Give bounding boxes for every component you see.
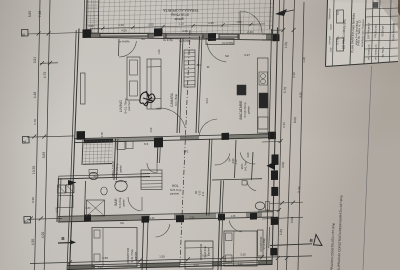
bottom dimension chain bbox=[30, 256, 312, 264]
svg-text:S=18.75 mp: S=18.75 mp bbox=[171, 13, 189, 17]
svg-text:0.80: 0.80 bbox=[86, 207, 91, 210]
svg-text:EXPERT: EXPERT bbox=[329, 35, 331, 44]
svg-text:±0.00: ±0.00 bbox=[56, 206, 58, 212]
title block row lines bbox=[366, 8, 398, 9]
kitchen fridge bbox=[258, 117, 268, 129]
tick bbox=[285, 256, 289, 260]
lower interior wall bbox=[58, 217, 273, 222]
svg-text:BAIE: BAIE bbox=[114, 198, 118, 205]
camara shelves bbox=[184, 50, 195, 87]
svg-text:3.81: 3.81 bbox=[33, 57, 37, 64]
svg-text:6.00: 6.00 bbox=[290, 217, 294, 224]
svg-text:M2: M2 bbox=[225, 54, 229, 58]
window top wall 3 bbox=[219, 35, 238, 38]
title block paper bbox=[326, 0, 399, 67]
tick bbox=[32, 135, 36, 139]
svg-text:4.70: 4.70 bbox=[43, 72, 47, 79]
top exterior wall bbox=[84, 32, 278, 35]
svg-text:1.20: 1.20 bbox=[118, 23, 124, 27]
svg-text:W.C.: W.C. bbox=[240, 163, 244, 170]
svg-text:10.35: 10.35 bbox=[32, 166, 36, 174]
dim connector y63 bbox=[40, 62, 58, 65]
svg-text:4.78: 4.78 bbox=[100, 132, 104, 138]
svg-text:3.60: 3.60 bbox=[182, 29, 188, 33]
svg-text:fw 6=5%: fw 6=5% bbox=[222, 41, 234, 45]
tick bbox=[249, 23, 252, 26]
svg-text:parchet: parchet bbox=[170, 192, 179, 196]
tick bbox=[68, 260, 72, 264]
desk edge top-right bbox=[388, 0, 400, 16]
door arc hall2 bbox=[240, 152, 255, 164]
svg-text:1.52: 1.52 bbox=[150, 127, 153, 132]
right connectors bbox=[271, 29, 283, 31]
column lower wall 1 bbox=[84, 214, 91, 221]
svg-text:gresie: gresie bbox=[119, 165, 123, 173]
column lower wall 2 bbox=[176, 215, 184, 222]
svg-text:0.90: 0.90 bbox=[31, 197, 35, 203]
living sofa bbox=[147, 59, 161, 109]
bedroom1/2 partition bbox=[142, 222, 144, 270]
left dimension chain A bbox=[35, 0, 40, 270]
svg-text:S=5.7mp: S=5.7mp bbox=[170, 188, 182, 192]
svg-text:DESENAT: DESENAT bbox=[381, 25, 384, 37]
terrace entry strip hatch bbox=[86, 0, 99, 34]
svg-text:2.10: 2.10 bbox=[235, 159, 238, 164]
svg-text:3.50: 3.50 bbox=[102, 256, 108, 260]
laundry counter bbox=[58, 196, 73, 208]
door arc bedroom left bbox=[156, 224, 170, 237]
column lower wall 4 bbox=[250, 213, 257, 220]
svg-text:2.20: 2.20 bbox=[247, 30, 253, 34]
column bedroom partition bbox=[142, 216, 150, 223]
north arrow bbox=[275, 9, 287, 16]
svg-text:S=3.5mp: S=3.5mp bbox=[115, 163, 119, 174]
bottom wall infill bbox=[67, 265, 95, 270]
column middle wall right bbox=[268, 132, 276, 140]
terrace tiled floor hatch bbox=[85, 0, 273, 35]
kitchen top counter bbox=[206, 39, 234, 45]
washer 1 bbox=[58, 185, 66, 193]
bed bedroom1 bbox=[92, 228, 137, 267]
svg-text:7.45: 7.45 bbox=[38, 11, 42, 18]
svg-text:3.00: 3.00 bbox=[193, 263, 199, 267]
bottom windows bbox=[95, 265, 140, 266]
terrace strip divider bbox=[97, 0, 100, 34]
svg-text:3.04: 3.04 bbox=[205, 98, 209, 104]
svg-text:gresie: gresie bbox=[122, 199, 126, 207]
svg-text:9x 9=8y: 9x 9=8y bbox=[163, 38, 173, 42]
tick bbox=[186, 257, 190, 261]
svg-text:8.05: 8.05 bbox=[293, 117, 297, 124]
kitchen appliance mid bbox=[237, 85, 246, 95]
partition x220 lower bbox=[220, 181, 222, 217]
axis bubble 3 bbox=[24, 216, 31, 223]
svg-text:S=1.75mp: S=1.75mp bbox=[174, 93, 178, 105]
svg-text:VERIFICAT: VERIFICAT bbox=[328, 8, 331, 20]
short horizontal connectors bbox=[27, 33, 84, 35]
sheet frame right bbox=[363, 66, 372, 270]
door arc spalator bbox=[147, 163, 157, 173]
door arc kitchen top bbox=[207, 43, 226, 62]
svg-text:5.80: 5.80 bbox=[28, 11, 32, 18]
lower wall infill bbox=[58, 214, 150, 222]
side terrace tiles bbox=[83, 140, 113, 165]
svg-text:arh. Ionescu M.: arh. Ionescu M. bbox=[367, 44, 371, 60]
svg-text:5.85: 5.85 bbox=[42, 152, 46, 159]
svg-text:parchet: parchet bbox=[127, 101, 131, 111]
left dimension chain B bbox=[44, 0, 50, 270]
hall/bath partition bbox=[207, 139, 210, 216]
bath wall inner bbox=[85, 181, 86, 217]
tick bbox=[138, 259, 142, 263]
wardrobe bedroom3 bbox=[258, 230, 264, 256]
svg-text:S=1.7mp: S=1.7mp bbox=[245, 160, 248, 171]
spalator/hall partition bbox=[156, 148, 159, 164]
svg-text:4.00: 4.00 bbox=[41, 232, 45, 239]
svg-text:3.27: 3.27 bbox=[244, 53, 250, 57]
bath shower bbox=[87, 200, 105, 216]
bedroom2/3 partition bbox=[218, 218, 220, 270]
svg-text:1.20: 1.20 bbox=[302, 57, 306, 63]
bedroom left wall bbox=[70, 223, 72, 270]
tick bbox=[161, 25, 164, 28]
right wall dark block 2 bbox=[271, 170, 278, 180]
column top wall 2 bbox=[154, 28, 163, 36]
svg-text:S=6: S=6 bbox=[144, 143, 149, 146]
svg-text:1.25: 1.25 bbox=[231, 215, 236, 218]
door arc hall1 bbox=[215, 153, 230, 165]
door arc terrace-kitchen bbox=[240, 11, 262, 33]
svg-text:SPALATOR: SPALATOR bbox=[111, 160, 115, 176]
svg-text:3.50: 3.50 bbox=[97, 265, 103, 269]
svg-text:scara: scara bbox=[329, 23, 332, 29]
svg-text:0.80: 0.80 bbox=[247, 152, 250, 157]
spalator washer bbox=[117, 142, 125, 150]
svg-text:parchet: parchet bbox=[208, 248, 211, 257]
middle wall infill bbox=[85, 137, 154, 143]
tick bbox=[221, 23, 224, 26]
right dimension chain C bbox=[278, 0, 285, 270]
wc partition lower right bbox=[252, 152, 254, 180]
svg-text:S=4.7mp: S=4.7mp bbox=[118, 197, 122, 208]
column middle wall left bbox=[77, 131, 86, 140]
svg-text:arh. Ionescu M.: arh. Ionescu M. bbox=[374, 44, 378, 60]
right dimension chain D bbox=[287, 0, 295, 270]
plant scribble bbox=[140, 91, 155, 106]
axis bubble 5 bbox=[21, 29, 28, 36]
svg-text:fw 6=5%: fw 6=5% bbox=[118, 40, 130, 44]
column middle wall a bbox=[154, 137, 163, 147]
svg-text:DORMITOR: DORMITOR bbox=[126, 247, 130, 264]
left wall lower (bath block) bbox=[57, 178, 59, 223]
right dim connectors bbox=[262, 217, 303, 219]
svg-text:1.40: 1.40 bbox=[150, 217, 155, 220]
tick bbox=[29, 217, 33, 221]
svg-text:D.T.A.C.: D.T.A.C. bbox=[336, 35, 339, 44]
kitchen counter right bbox=[258, 58, 269, 133]
svg-text:1.80: 1.80 bbox=[236, 20, 242, 24]
column right wall bottom bbox=[270, 248, 277, 256]
door arc wc bbox=[247, 181, 256, 191]
svg-text:CAMARA: CAMARA bbox=[170, 92, 174, 107]
door arc living-hall bbox=[156, 108, 185, 127]
svg-text:1.50: 1.50 bbox=[284, 42, 288, 49]
door arc terrace-living bbox=[119, 41, 136, 57]
svg-text:11.95: 11.95 bbox=[297, 186, 301, 194]
svg-text:4.35: 4.35 bbox=[298, 92, 302, 98]
right exterior wall bbox=[272, 28, 278, 266]
tick bbox=[292, 28, 296, 32]
window top wall 2 bbox=[166, 34, 203, 37]
living tv unit bbox=[81, 73, 86, 104]
door arc bedroom right bbox=[229, 220, 242, 232]
title block inner boxes bbox=[336, 10, 343, 23]
axis bubble 4 bbox=[22, 136, 29, 143]
svg-text:1.50: 1.50 bbox=[159, 255, 165, 259]
svg-text:2.10: 2.10 bbox=[203, 191, 205, 196]
svg-text:1.00: 1.00 bbox=[158, 49, 161, 54]
bottom exterior wall bbox=[67, 264, 272, 269]
hall closet/stairs bbox=[141, 170, 162, 190]
terrace2 top black band bbox=[84, 139, 113, 144]
svg-text:1.10: 1.10 bbox=[178, 22, 184, 26]
svg-text:TERASA ACOPERITA: TERASA ACOPERITA bbox=[163, 8, 199, 12]
svg-text:DORMITOR: DORMITOR bbox=[199, 243, 203, 260]
wc lower toilet bbox=[255, 202, 265, 210]
svg-text:3.20: 3.20 bbox=[237, 262, 243, 266]
tick bbox=[101, 27, 104, 30]
small dark box top right bbox=[373, 3, 378, 8]
svg-text:PLAN PARTER: PLAN PARTER bbox=[391, 23, 396, 41]
column right wall 217 bbox=[271, 217, 279, 225]
door arc kitchen bottom bbox=[199, 119, 217, 136]
column right wall mid bbox=[272, 154, 279, 165]
tick bbox=[191, 24, 194, 27]
section arrow left bbox=[68, 180, 77, 186]
bath door arc bbox=[128, 197, 141, 211]
window top wall 1 bbox=[100, 34, 148, 37]
tick bbox=[277, 208, 281, 212]
svg-text:1.70: 1.70 bbox=[33, 119, 37, 125]
right wall window low bbox=[268, 227, 271, 248]
svg-text:BF2: BF2 bbox=[184, 151, 189, 154]
column top wall 4 bbox=[273, 34, 280, 41]
svg-text:2.30: 2.30 bbox=[88, 24, 94, 28]
svg-text:0.35: 0.35 bbox=[282, 122, 286, 128]
svg-text:SEF PROIECT: SEF PROIECT bbox=[367, 22, 371, 39]
terrace left edge wall bbox=[85, 0, 88, 34]
section dash line bbox=[180, 30, 190, 268]
svg-text:1:50: 1:50 bbox=[330, 47, 332, 52]
kitchen sink bbox=[259, 72, 268, 85]
svg-text:S=12.5mp: S=12.5mp bbox=[263, 238, 266, 250]
kitchen stove bbox=[259, 93, 268, 108]
svg-text:0.90: 0.90 bbox=[202, 254, 208, 258]
title block bbox=[326, 0, 399, 67]
svg-text:gresie: gresie bbox=[174, 17, 183, 21]
svg-text:4.50: 4.50 bbox=[31, 239, 35, 246]
svg-text:parchet: parchet bbox=[135, 252, 138, 261]
section arrow right bbox=[267, 162, 276, 171]
tick bbox=[276, 256, 280, 260]
left exterior wall bbox=[72, 29, 80, 223]
bed bedroom3 bbox=[224, 231, 257, 266]
svg-text:gresie: gresie bbox=[247, 106, 251, 114]
svg-text:0.90: 0.90 bbox=[200, 190, 202, 195]
svg-text:2.35: 2.35 bbox=[208, 21, 214, 25]
svg-text:LIVING: LIVING bbox=[119, 100, 123, 112]
terrace right edge / steps bbox=[273, 0, 274, 35]
svg-text:PROIECTAT: PROIECTAT bbox=[374, 24, 377, 38]
right dimension chain E bbox=[298, 2, 304, 270]
svg-text:2.95: 2.95 bbox=[190, 217, 195, 220]
middle interior wall bbox=[74, 138, 276, 143]
bath sink bbox=[115, 181, 127, 192]
corner shadow bbox=[376, 0, 400, 30]
bed bedroom2 bbox=[185, 241, 213, 269]
svg-text:4.48: 4.48 bbox=[33, 92, 37, 99]
living table bbox=[127, 57, 140, 100]
wall seg right of door bbox=[262, 33, 272, 35]
tick bbox=[220, 256, 224, 260]
bath toilet bbox=[89, 172, 98, 179]
wc sink bbox=[242, 181, 247, 186]
spalator/bath divider bbox=[58, 177, 150, 180]
column top wall 3 bbox=[208, 33, 216, 41]
svg-text:2.05: 2.05 bbox=[148, 22, 154, 26]
tick bbox=[281, 28, 285, 32]
svg-text:5.75: 5.75 bbox=[283, 87, 287, 94]
svg-text:BF1: BF1 bbox=[197, 63, 202, 67]
svg-text:ing. Pop V.: ing. Pop V. bbox=[382, 46, 384, 57]
camara left partition bbox=[177, 38, 181, 133]
tick bbox=[279, 139, 283, 143]
column top wall 1 bbox=[83, 29, 92, 38]
svg-text:4.00: 4.00 bbox=[281, 162, 285, 169]
svg-text:2.30: 2.30 bbox=[292, 72, 296, 78]
bath internal partition bbox=[235, 140, 237, 178]
column lower wall 3 bbox=[218, 214, 225, 221]
terrace dim row bbox=[90, 24, 265, 29]
svg-text:4.35: 4.35 bbox=[121, 29, 127, 33]
column right wall 187 bbox=[271, 187, 278, 196]
svg-text:1.86: 1.86 bbox=[279, 229, 283, 236]
tick bbox=[131, 26, 134, 29]
svg-text:3.20: 3.20 bbox=[240, 253, 246, 257]
tick bbox=[37, 32, 41, 36]
column middle wall b bbox=[222, 133, 230, 140]
camara right partition bbox=[196, 36, 200, 133]
bath bidet bbox=[101, 187, 107, 195]
top wall infill bbox=[92, 33, 100, 37]
spalator right wall bbox=[114, 139, 116, 181]
washer 2 bbox=[66, 185, 74, 193]
tick bbox=[260, 255, 264, 259]
